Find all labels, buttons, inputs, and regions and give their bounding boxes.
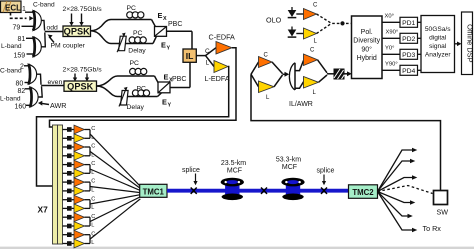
svg-text:L-EDFA: L-EDFA — [205, 74, 230, 83]
svg-text:Y90°: Y90° — [385, 62, 398, 68]
svg-text:C-EDFA: C-EDFA — [209, 33, 236, 42]
svg-text:splice: splice — [317, 167, 335, 174]
svg-text:C-band: C-band — [33, 2, 55, 9]
svg-text:Y0°: Y0° — [385, 46, 394, 52]
svg-text:1: 1 — [22, 6, 26, 13]
svg-text:MCF: MCF — [282, 164, 297, 171]
svg-text:PC: PC — [137, 85, 147, 92]
svg-text:X0°: X0° — [385, 14, 394, 20]
svg-text:2×28.75Gb/s: 2×28.75Gb/s — [63, 67, 103, 74]
svg-text:L: L — [91, 135, 94, 141]
svg-text:PD3: PD3 — [402, 52, 415, 59]
svg-text:E: E — [161, 40, 166, 49]
svg-text:Offline DSP: Offline DSP — [466, 24, 474, 63]
svg-text:23.5-km: 23.5-km — [221, 160, 246, 167]
svg-text:E: E — [158, 11, 163, 20]
svg-text:L: L — [91, 205, 94, 211]
svg-text:PBC: PBC — [172, 76, 186, 83]
svg-text:TMC2: TMC2 — [352, 188, 374, 197]
svg-text:79: 79 — [13, 25, 21, 32]
svg-text:50GSa/s: 50GSa/s — [425, 26, 451, 33]
svg-text:C-band: C-band — [0, 67, 22, 74]
svg-text:PC: PC — [130, 60, 140, 67]
svg-text:signal: signal — [429, 43, 447, 50]
svg-text:C: C — [310, 47, 315, 53]
svg-text:even: even — [48, 79, 63, 86]
svg-text:PC: PC — [127, 5, 137, 12]
svg-text:C: C — [313, 3, 318, 9]
svg-text:159: 159 — [14, 53, 26, 60]
svg-text:QPSK: QPSK — [64, 27, 90, 37]
svg-text:splice: splice — [182, 167, 200, 174]
svg-text:C: C — [205, 48, 210, 55]
svg-text:L: L — [91, 240, 94, 246]
svg-text:L-band: L-band — [1, 43, 22, 50]
svg-text:E: E — [162, 97, 167, 106]
svg-text:QPSK: QPSK — [67, 82, 93, 92]
svg-text:To Rx: To Rx — [423, 224, 442, 233]
svg-text:PM coupler: PM coupler — [51, 43, 86, 50]
svg-text:SW: SW — [437, 208, 449, 217]
svg-text:X90°: X90° — [386, 30, 399, 36]
svg-text:C: C — [91, 126, 95, 132]
svg-text:53.3-km: 53.3-km — [276, 157, 301, 164]
svg-text:Y: Y — [167, 45, 171, 51]
svg-text:L: L — [206, 59, 210, 66]
svg-text:C: C — [264, 52, 269, 58]
svg-text:PD1: PD1 — [402, 20, 415, 27]
svg-text:X7: X7 — [38, 205, 49, 215]
svg-text:OLO: OLO — [266, 16, 282, 25]
svg-text:C: C — [91, 231, 95, 237]
svg-text:160: 160 — [15, 103, 27, 110]
svg-text:PBC: PBC — [168, 21, 182, 28]
svg-text:80: 80 — [16, 80, 24, 87]
svg-text:Y: Y — [168, 102, 172, 108]
svg-text:TMC1: TMC1 — [143, 187, 165, 196]
svg-text:2: 2 — [20, 63, 24, 70]
svg-text:MCF: MCF — [227, 168, 242, 175]
svg-text:ECL: ECL — [5, 3, 21, 12]
svg-text:L: L — [91, 188, 94, 194]
svg-text:82: 82 — [18, 88, 26, 95]
svg-text:AWR: AWR — [50, 101, 67, 110]
svg-text:PD4: PD4 — [402, 68, 415, 75]
svg-text:Pol.: Pol. — [361, 29, 373, 36]
svg-text:Hybrid: Hybrid — [357, 55, 377, 62]
svg-text:Diversity: Diversity — [353, 38, 380, 45]
svg-text:X: X — [163, 16, 167, 22]
svg-text:L: L — [91, 223, 94, 229]
svg-text:IL: IL — [186, 51, 194, 61]
svg-text:E: E — [164, 72, 169, 81]
svg-text:IL/AWR: IL/AWR — [289, 101, 313, 108]
svg-text:L: L — [91, 170, 94, 176]
svg-text:PC: PC — [133, 30, 143, 37]
svg-text:C: C — [91, 196, 95, 202]
svg-text:2×28.75Gb/s: 2×28.75Gb/s — [63, 6, 103, 13]
svg-text:Analyzer: Analyzer — [425, 52, 451, 59]
svg-text:digital: digital — [429, 35, 447, 42]
svg-text:odd: odd — [47, 25, 59, 32]
svg-text:Delay: Delay — [127, 104, 145, 111]
svg-text:C: C — [91, 179, 95, 185]
svg-text:C: C — [91, 214, 95, 220]
svg-text:L: L — [91, 152, 94, 158]
svg-text:Delay: Delay — [128, 47, 146, 54]
svg-text:C: C — [91, 161, 95, 167]
svg-text:PD2: PD2 — [402, 36, 415, 43]
svg-text:L-band: L-band — [0, 95, 21, 102]
svg-text:90°: 90° — [361, 45, 372, 53]
svg-text:C: C — [91, 144, 95, 150]
